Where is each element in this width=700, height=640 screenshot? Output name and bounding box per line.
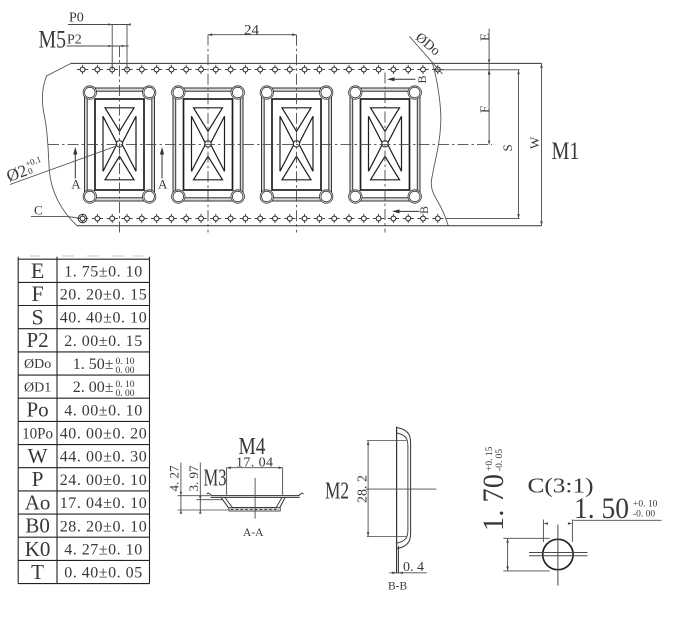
pocket centerline 2 [207, 35, 209, 233]
dimension S (right side) [500, 70, 520, 219]
svg-text:F: F [477, 106, 492, 113]
svg-text:F: F [31, 281, 43, 306]
A-A flange right end bend [299, 493, 304, 496]
svg-text:B-B: B-B [388, 581, 408, 593]
svg-text:E: E [477, 33, 492, 41]
svg-text:2. 00±: 2. 00± [73, 379, 114, 396]
svg-text:B0: B0 [25, 514, 50, 538]
A-A pocket cavity inner wall [225, 497, 282, 507]
svg-text:20. 20±0. 15: 20. 20±0. 15 [60, 287, 147, 304]
detail view C (3:1) [477, 446, 662, 585]
pocket centerline 3 [296, 35, 298, 233]
svg-text:A: A [71, 177, 81, 192]
section arrow A left [71, 147, 81, 192]
svg-text:2. 00±0. 15: 2. 00±0. 15 [64, 333, 142, 350]
svg-text:K0: K0 [25, 537, 51, 561]
dimension P0 [68, 11, 131, 71]
B-B pocket bulge inner [397, 433, 408, 543]
svg-text:M2: M2 [325, 479, 349, 505]
svg-text:1. 75±0. 10: 1. 75±0. 10 [64, 263, 142, 280]
svg-text:M5: M5 [39, 27, 67, 54]
svg-text:M3: M3 [204, 466, 227, 492]
carrier tape top edge [71, 62, 542, 64]
A-A pocket cavity outer wall [221, 497, 285, 509]
pocket 3 [260, 86, 333, 203]
carrier tape bottom edge [77, 225, 542, 227]
A-A tape flange top surface [211, 495, 300, 497]
svg-text:28. 20±0. 10: 28. 20±0. 10 [60, 518, 147, 535]
svg-text:B: B [417, 206, 431, 214]
tape left break line [42, 63, 77, 225]
svg-text:4. 00±0. 10: 4. 00±0. 10 [64, 402, 142, 419]
pocket 4 [349, 86, 422, 203]
cropped text remnants above table [30, 255, 143, 257]
dimension F (right side) [477, 70, 492, 145]
svg-text:M1: M1 [552, 136, 580, 165]
svg-text:S: S [500, 144, 515, 151]
B-B horizontal centerline [366, 488, 436, 490]
svg-text:+0. 15: +0. 15 [485, 446, 495, 471]
pocket 1 [83, 86, 156, 203]
B-B tape plane [396, 427, 398, 574]
svg-text:1. 50±: 1. 50± [73, 356, 114, 373]
svg-text:40. 00±0. 20: 40. 00±0. 20 [60, 426, 147, 443]
svg-text:+0. 10: +0. 10 [633, 500, 658, 510]
dimension 1.70 +0.15/-0.05 [477, 446, 510, 531]
svg-text:P0: P0 [69, 11, 84, 26]
svg-text:-0. 05: -0. 05 [495, 449, 505, 471]
svg-text:S: S [31, 304, 43, 329]
section arrow A right [158, 147, 168, 192]
detail C sprocket hole circle [543, 539, 573, 569]
svg-text:4. 27: 4. 27 [167, 465, 182, 492]
extension line sprocket top center to S/E [435, 69, 520, 71]
label ODo with leader to last top sprocket hole [410, 30, 443, 74]
pocket 2 [172, 86, 245, 203]
svg-text:1. 70: 1. 70 [477, 474, 510, 531]
dimension 24 (pocket pitch P) [208, 23, 297, 39]
svg-text:P2: P2 [67, 33, 82, 48]
sprocket hole row, bottom [77, 214, 443, 223]
B-B pocket bulge outer [397, 428, 411, 549]
svg-text:4. 27±0. 10: 4. 27±0. 10 [64, 541, 142, 558]
svg-text:T: T [31, 560, 44, 584]
dimension table [18, 257, 149, 584]
section arrow B bottom [392, 206, 431, 214]
detail C vertical centerline [557, 525, 559, 586]
dimension P2 [67, 33, 129, 48]
svg-text:Ao: Ao [25, 490, 51, 514]
svg-text:P2: P2 [27, 328, 49, 352]
section view B-B [325, 427, 436, 593]
dimension W (right side) [527, 63, 543, 225]
pocket centerline 4 [384, 73, 386, 233]
svg-text:0. 00: 0. 00 [116, 366, 135, 376]
svg-text:W: W [28, 444, 48, 468]
svg-text:E: E [31, 258, 44, 283]
svg-text:0. 00: 0. 00 [116, 389, 135, 399]
svg-text:44. 00±0. 30: 44. 00±0. 30 [60, 449, 147, 466]
svg-text:C: C [34, 203, 43, 218]
detail C marker circle on first bottom sprocket hole [78, 214, 87, 223]
svg-text:3. 97: 3. 97 [186, 465, 201, 492]
svg-text:24. 00±0. 10: 24. 00±0. 10 [60, 472, 147, 489]
dimension E (right side) [477, 29, 492, 145]
pocket centerline 1 [119, 46, 121, 233]
label O2 +0.1/0 with leader to pocket 1 center hole [4, 146, 117, 186]
extension line sprocket bottom center to S [446, 218, 520, 220]
section arrow B top [387, 75, 429, 83]
svg-text:40. 40±0. 10: 40. 40±0. 10 [60, 310, 147, 327]
svg-text:ØDo: ØDo [24, 357, 51, 372]
A-A flange left end bend [207, 493, 212, 496]
svg-text:Po: Po [27, 398, 49, 422]
sprocket hole row, top (Po pitch) [77, 65, 443, 74]
section view A-A [167, 434, 304, 539]
svg-text:0. 40±0. 05: 0. 40±0. 05 [64, 565, 142, 582]
svg-text:24: 24 [244, 23, 260, 39]
svg-text:10Po: 10Po [22, 425, 53, 442]
detail C tape surfaces [529, 552, 588, 554]
svg-text:17. 04±0. 10: 17. 04±0. 10 [60, 495, 147, 512]
label C with leader to tape edge [31, 203, 80, 219]
svg-text:-0. 00: -0. 00 [633, 510, 655, 520]
A-A pocket bottom band [229, 508, 280, 512]
tape horizontal centerline [48, 144, 492, 146]
svg-text:W: W [527, 136, 542, 149]
tape right break line [431, 63, 448, 225]
svg-text:ØD1: ØD1 [24, 380, 51, 395]
svg-text:A: A [158, 177, 168, 192]
svg-text:A-A: A-A [243, 527, 264, 539]
svg-text:P: P [32, 467, 44, 491]
svg-text:B: B [415, 75, 429, 83]
A-A vertical centerline [254, 478, 256, 519]
